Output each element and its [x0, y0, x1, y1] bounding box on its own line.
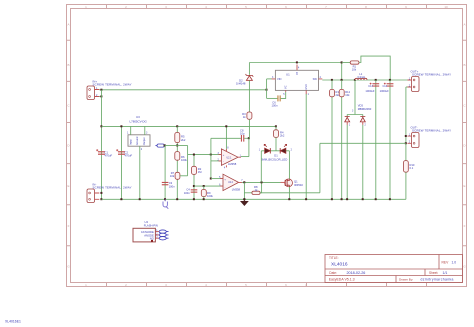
ground symbol violet — [163, 199, 168, 208]
zone letters left — [67, 23, 70, 269]
resistor R2 1M — [192, 166, 197, 174]
svg-text:10: 10 — [444, 5, 448, 9]
junction L1 left VD3 — [354, 79, 356, 81]
svg-text:E: E — [67, 184, 69, 188]
trimmer R7 wiper lead — [180, 175, 188, 177]
wire feedback column x210.9 — [210, 138, 212, 178]
wire C2 column x121.5 — [121, 126, 123, 199]
inductor L1 — [355, 78, 367, 80]
capacitor C2 — [116, 149, 125, 155]
svg-text:Input: Input — [128, 139, 132, 145]
svg-text:1.0: 1.0 — [452, 261, 457, 265]
svg-text:10p: 10p — [240, 132, 245, 136]
U3 pin numbers — [127, 132, 148, 151]
svg-text:A: A — [463, 23, 465, 27]
svg-text:0.1: 0.1 — [410, 166, 414, 170]
svg-text:A: A — [67, 23, 69, 27]
title block row line 2 — [325, 275, 463, 277]
svg-text:100n: 100n — [272, 104, 278, 108]
svg-text:VC: VC — [285, 85, 288, 89]
border column ticks bottom — [107, 283, 427, 287]
wire sense riser x319.9 — [319, 143, 321, 193]
junction SW drop — [341, 79, 343, 81]
svg-text:EasyEDA V5.1.3: EasyEDA V5.1.3 — [329, 278, 355, 282]
title block divider sheet — [424, 269, 426, 276]
svg-text:100n: 100n — [184, 191, 190, 195]
wire out minus column x405.9 — [405, 87, 407, 161]
svg-text:10k: 10k — [345, 93, 350, 97]
TITLEBLOCK — [325, 255, 463, 283]
wire 5V rail y126.4 — [102, 125, 277, 127]
diode D2 1N4148 — [246, 74, 254, 80]
svg-text:Ground: Ground — [135, 136, 139, 145]
junction C4 bottom rail — [193, 198, 195, 200]
U4 plug pin numbers — [156, 230, 158, 239]
junction pin5 node — [210, 178, 212, 180]
U1 pin numbers — [272, 68, 322, 96]
wire VIN horizontal — [267, 78, 272, 80]
border column ticks top — [107, 5, 427, 9]
wire top rail y62.5 — [249, 62, 341, 64]
wire VD3 anode1 down x347.2 — [346, 125, 348, 199]
wire pin6 line y185.8 — [194, 185, 223, 187]
wire Vref to ref column — [177, 145, 187, 147]
wire top rail drop x341.7 — [341, 63, 343, 81]
connector P1 IN+ screw terminal 2way — [87, 86, 99, 100]
junction R9 top — [203, 185, 205, 187]
wire sense line continuation y192.8 — [260, 192, 320, 194]
capacitor C13 output — [370, 83, 379, 87]
junction IN+ pin2 — [100, 95, 102, 97]
wire C8 to output column — [244, 137, 249, 139]
svg-text:Drawn By:: Drawn By: — [399, 278, 413, 282]
junction VD3 anode1 rail — [346, 198, 348, 200]
junction IN+ pin1 — [100, 89, 102, 91]
wire IN+ pin1 to rail — [99, 89, 101, 91]
wire LED left pin down x261.3 — [260, 151, 262, 183]
junction C14 bottom rail — [389, 198, 391, 200]
svg-text:U3: U3 — [136, 115, 140, 119]
wire VD3 stub x355 — [354, 80, 356, 115]
regulator U3 box — [128, 126, 150, 199]
connector P4 OUT- screw terminal 2way — [408, 133, 420, 148]
svg-text:2018-02-26: 2018-02-26 — [347, 271, 366, 275]
svg-text:U2.2: U2.2 — [228, 182, 234, 184]
wire op2 output line y182.4 — [242, 181, 281, 183]
IC U1 XL4016 box — [272, 65, 323, 95]
svg-text:D1: D1 — [274, 153, 278, 157]
zone numbers bottom — [85, 283, 307, 287]
pin numbers P1 — [96, 87, 98, 97]
zone letters right — [463, 23, 466, 269]
svg-text:10k: 10k — [352, 67, 357, 71]
junction IN- pin1 — [100, 192, 102, 194]
capacitor C8 feedback — [241, 135, 244, 142]
resistor R6 — [175, 152, 180, 161]
capacitor C14 output — [384, 83, 394, 87]
junction LED left pin output line — [261, 181, 263, 183]
wire C13 column x375.8 — [375, 80, 377, 199]
wire op1 output y156.2 — [241, 156, 249, 158]
svg-text:5MM_BICOLOR_LED: 5MM_BICOLOR_LED — [261, 157, 287, 161]
wire feedback top line y138.3 — [211, 137, 241, 139]
svg-text:U2.1: U2.1 — [227, 157, 233, 159]
svg-text:U1: U1 — [286, 72, 290, 76]
svg-text:XL4016: XL4016 — [331, 261, 348, 267]
connector P3 OUT+ screw terminal 2way — [408, 77, 420, 92]
junction IN- pin2 — [100, 198, 102, 200]
svg-text:F: F — [68, 224, 70, 228]
junction C2 bottom — [120, 198, 122, 200]
junction R9 bottom rail — [203, 198, 205, 200]
wire R3 to op1 output — [248, 119, 250, 138]
wire Vref flag to divider — [165, 145, 178, 147]
wire R8 up stub x261.6 — [261, 182, 263, 192]
resistor R3 — [247, 112, 252, 119]
P3 pin numbers — [409, 77, 411, 87]
svg-text:-: - — [225, 185, 226, 189]
junction R2 bottom node — [193, 185, 195, 187]
connector U4 led header — [133, 228, 159, 242]
junction feedback column on pin3 line — [210, 154, 212, 156]
svg-text:-: - — [223, 160, 224, 164]
svg-text:1000uF: 1000uF — [380, 89, 389, 93]
svg-text:C13: C13 — [368, 85, 373, 88]
svg-text:XL4016E1: XL4016E1 — [5, 320, 21, 324]
svg-text:GND: GND — [305, 84, 308, 90]
svg-text:LM358: LM358 — [228, 162, 237, 166]
svg-text:1/1: 1/1 — [443, 271, 448, 275]
svg-text:VIN: VIN — [277, 77, 281, 81]
led D1 bicolor — [261, 144, 289, 153]
svg-text:REV: REV — [442, 261, 450, 265]
wire VIN drop x266.6 — [266, 79, 268, 99]
svg-text:B: B — [463, 63, 465, 67]
resistor R10 shunt — [404, 161, 409, 200]
op-amp U2.1 — [219, 149, 242, 168]
svg-text:FB: FB — [296, 72, 299, 75]
svg-text:SCREW TERMINAL, 2WAY: SCREW TERMINAL, 2WAY — [93, 82, 132, 86]
junction C2 top — [120, 125, 122, 127]
wire R2 column x194 — [193, 155, 195, 200]
junction R5 top — [176, 125, 178, 127]
svg-text:2k2: 2k2 — [280, 134, 285, 138]
junction C3 bottom rail — [164, 198, 166, 200]
capacitor C6 — [277, 95, 280, 101]
resistor R11 — [330, 89, 335, 96]
border row ticks right — [463, 40, 467, 246]
trimmer R7 body — [175, 172, 180, 179]
resistor R1 snubber 10k — [342, 56, 390, 80]
resistor R8 1k — [252, 191, 260, 194]
connector P2 IN- screw terminal 2way — [87, 189, 99, 203]
svg-text:10k: 10k — [170, 174, 175, 178]
svg-text:NO: NO — [150, 237, 154, 241]
wire SW line y80 — [322, 79, 407, 81]
title block divider rev — [438, 255, 440, 270]
junction OUT- pin1 — [405, 135, 407, 137]
wire gnd column x244.4 — [243, 182, 245, 199]
junction U1 gnd rail — [305, 198, 307, 200]
svg-text:SCREW TERMINAL, 2WAY: SCREW TERMINAL, 2WAY — [93, 186, 132, 190]
junction OUT- pin2 — [405, 142, 407, 144]
P4 pin numbers — [409, 134, 411, 144]
zone numbers top — [85, 5, 448, 9]
wire IN+ pin2 stub — [99, 96, 101, 98]
wire divider column x177.3 — [176, 126, 178, 199]
svg-text:SW: SW — [313, 77, 318, 81]
svg-text:470uF: 470uF — [105, 154, 113, 158]
wire D2 to R3 — [248, 80, 250, 112]
junction output to gnd column — [243, 181, 245, 183]
capacitor C4 — [191, 189, 198, 192]
resistor R5 — [175, 133, 180, 143]
wire LED right pin down x289.4 — [288, 151, 290, 180]
wire pin2 line y160.9 — [211, 160, 222, 162]
svg-text:100n: 100n — [169, 184, 175, 188]
VD3 pin numbers — [349, 110, 367, 126]
diode VD3 MBRF2060 — [345, 115, 366, 125]
junction VD3 anode2 rail — [362, 198, 364, 200]
wire VD3 anode2 down x362.8 — [362, 125, 364, 199]
junction R11 top — [331, 79, 333, 81]
wire output column x248.9 to feedback — [248, 138, 250, 156]
svg-text:1000uF: 1000uF — [365, 89, 374, 93]
junction op1 V+ on 5V rail — [225, 125, 227, 127]
wire ground rail y199 — [102, 198, 406, 200]
sheet border outer — [67, 5, 467, 287]
resistor R9 — [201, 186, 206, 199]
svg-text:MBRF2060: MBRF2060 — [358, 107, 372, 111]
svg-text:FLASH-PIN: FLASH-PIN — [144, 223, 158, 227]
border row ticks left — [67, 40, 71, 246]
svg-text:IRF540: IRF540 — [294, 183, 303, 187]
wire ref column x187.6 — [187, 146, 189, 176]
junction C1 top — [100, 125, 102, 127]
wire OUT+ pin2 to down column — [406, 86, 408, 88]
U4 plug sockets — [159, 230, 168, 240]
junction Q1 source rail — [288, 198, 290, 200]
net flag Vref — [155, 144, 164, 147]
wire op1 V+ stub x226.4 — [225, 126, 227, 148]
svg-text:2k2: 2k2 — [181, 138, 186, 142]
wire C14 column x390 — [389, 80, 391, 199]
transistor Q1 mosfet — [281, 179, 293, 187]
junction gnd column rail — [243, 198, 245, 200]
svg-text:1N4148: 1N4148 — [236, 82, 246, 86]
svg-text:LM358: LM358 — [232, 187, 241, 191]
wire IN+ rail y90 — [102, 89, 267, 91]
ground symbol main — [241, 199, 248, 205]
junction divider bottom at rail — [176, 198, 178, 200]
title block row line 1 — [325, 268, 463, 270]
junction C14 top — [389, 79, 391, 81]
wire pin3 line y154.6 — [188, 154, 222, 156]
junction C13 bottom rail — [375, 198, 377, 200]
svg-text:100k: 100k — [207, 194, 213, 198]
svg-text:F: F — [464, 224, 466, 228]
wire R11 column x332 — [331, 80, 333, 199]
wire sense line y143.3 — [320, 142, 406, 144]
junction feedback output column — [248, 137, 250, 139]
wire pin5 line y178.6 — [211, 178, 223, 180]
svg-text:E: E — [463, 184, 465, 188]
svg-text:C14: C14 — [383, 85, 388, 88]
junction R2 top on pin3 line — [193, 154, 195, 156]
resistor R12 — [339, 89, 344, 96]
svg-text:L7805CV-DG: L7805CV-DG — [130, 119, 148, 123]
svg-text:Date:: Date: — [329, 271, 337, 275]
junction IN+ rail to VIN — [266, 89, 268, 91]
wire R12 column x342 — [341, 80, 343, 199]
capacitor C3 — [162, 182, 169, 185]
svg-text:Sheet:: Sheet: — [429, 271, 438, 275]
junction U3 gnd at rail — [139, 198, 141, 200]
svg-text:Output: Output — [142, 137, 146, 145]
resistor R4 led — [274, 126, 279, 150]
D1 pin numbers — [259, 149, 293, 151]
junction R11 bottom rail — [331, 198, 333, 200]
op-amp U2.2 — [220, 174, 242, 190]
junction snubber corner — [341, 61, 343, 63]
svg-text:470uF: 470uF — [125, 154, 133, 158]
title block divider drawnby — [395, 276, 397, 283]
wire R8 right to up stub — [260, 192, 262, 194]
svg-text:B: B — [67, 63, 69, 67]
wire C6 line y98.4 — [267, 97, 278, 99]
sheet border inner — [71, 9, 463, 283]
junction Vref flag — [164, 144, 166, 146]
U2.2 pin numbers — [219, 177, 243, 187]
junction divider mid — [176, 144, 178, 146]
U2.1 pin numbers — [218, 147, 242, 169]
svg-text:dzmitrymarchanka: dzmitrymarchanka — [421, 278, 454, 282]
wire C6 to VC pin — [281, 92, 286, 99]
junction U1 FB stub — [296, 61, 298, 63]
wire D2 column x249.4 top — [248, 63, 250, 75]
capacitor C1 — [96, 149, 105, 155]
title block outline — [325, 255, 463, 283]
svg-text:100k: 100k — [181, 158, 187, 162]
svg-text:SCREW TERMINAL, 2WAY: SCREW TERMINAL, 2WAY — [412, 73, 451, 77]
svg-text:SCREW TERMINAL, 2WAY: SCREW TERMINAL, 2WAY — [412, 129, 451, 133]
wire C3 column x165 — [164, 146, 166, 200]
wire vertical x101.5 input minus column — [101, 90, 103, 200]
wire U1 gnd column x306.2 — [305, 94, 307, 199]
svg-text:3.3mH: 3.3mH — [357, 75, 365, 79]
svg-text:TITLE:: TITLE: — [329, 256, 339, 260]
junction R12 bottom rail — [341, 198, 343, 200]
wire sense line y192.8 — [244, 192, 252, 194]
junction C13 top — [375, 79, 377, 81]
junction R4 top 5V rail — [275, 125, 277, 127]
wire Q1 source down — [288, 187, 290, 200]
